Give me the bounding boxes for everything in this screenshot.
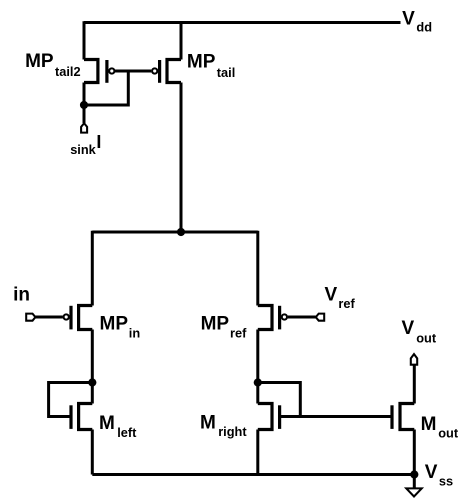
transistor MPin gate bar: [69, 306, 72, 330]
label Vref: [325, 284, 356, 311]
wire Mright diode tie from node C to gate net: [258, 383, 301, 417]
wire Mleft diode tie from node B to gate: [49, 383, 93, 417]
wire node A to Isink port: [83, 105, 86, 123]
wire Mout drain up to Vout port: [413, 365, 416, 404]
label MPtail2: [25, 51, 81, 79]
svg-text:left: left: [117, 425, 137, 440]
transistor MPtail gate bar: [158, 60, 161, 83]
transistor MPtail2 gate bubble: [109, 68, 114, 73]
svg-text:ss: ss: [439, 474, 453, 489]
label MPin: [100, 314, 141, 341]
svg-text:right: right: [218, 424, 247, 439]
wire tail node rail: [92, 231, 257, 234]
port Vout terminal: [411, 354, 417, 365]
label Mleft: [99, 413, 137, 440]
transistor MPin gate bubble: [64, 314, 69, 319]
svg-text:MP: MP: [201, 314, 230, 335]
svg-text:tail2: tail2: [55, 64, 81, 79]
svg-text:in: in: [13, 285, 30, 306]
node C junction dot: [254, 378, 262, 386]
transistor Mleft channel: [79, 404, 93, 430]
svg-text:in: in: [129, 325, 141, 340]
svg-text:I: I: [96, 132, 101, 152]
svg-text:ref: ref: [338, 296, 355, 311]
svg-text:ref: ref: [230, 325, 247, 340]
wire MPtail2 source to rail: [83, 21, 86, 59]
label Vss: [425, 462, 453, 489]
transistor MPref gate bar: [278, 306, 281, 330]
label Vdd: [402, 8, 432, 34]
transistor Mleft gate bar: [69, 405, 72, 429]
svg-text:out: out: [438, 426, 459, 441]
svg-text:MP: MP: [100, 314, 129, 335]
transistor MPtail2 gate bar: [105, 60, 108, 83]
svg-text:MP: MP: [187, 52, 216, 73]
wire node B down to Mleft drain: [91, 383, 94, 404]
node Vss junction dot: [410, 470, 418, 478]
svg-text:tail: tail: [217, 65, 236, 80]
label in: [13, 285, 30, 306]
transistor Mright gate bar: [278, 405, 281, 429]
wire Mright source to Vss rail: [256, 430, 259, 475]
node B junction dot: [88, 378, 96, 386]
transistor Mright channel: [258, 404, 272, 430]
label MPref: [201, 314, 247, 341]
wire Mleft source to Vss rail: [91, 430, 94, 475]
wire node C down to Mright drain: [256, 383, 259, 404]
transistor MPin channel: [79, 306, 93, 330]
wire Mout source to Vss rail: [413, 430, 416, 475]
wire MPref gate to Vref port: [288, 316, 316, 319]
wire Vss bottom rail: [92, 473, 414, 476]
wire MPtail source to rail: [180, 21, 183, 59]
port Vref terminal: [316, 314, 324, 321]
wire MPtail drain down to tail node: [180, 83, 183, 233]
port Isink terminal: [81, 123, 87, 132]
svg-text:M: M: [99, 413, 115, 434]
label MPtail: [187, 52, 235, 80]
svg-text:out: out: [416, 330, 437, 345]
node tail junction dot: [177, 228, 185, 236]
svg-text:V: V: [325, 284, 338, 305]
transistor MPref gate bubble: [282, 314, 287, 319]
svg-text:MP: MP: [25, 51, 54, 72]
wire MPref drain to node C: [256, 330, 259, 383]
svg-text:V: V: [402, 8, 415, 29]
svg-text:dd: dd: [416, 20, 432, 35]
transistor MPref channel: [258, 306, 272, 330]
svg-text:V: V: [425, 462, 438, 483]
transistor MPtail gate bubble: [152, 68, 157, 73]
transistor MPtail2 channel: [84, 60, 98, 83]
svg-text:V: V: [402, 318, 415, 339]
label Isink: [70, 132, 101, 157]
ground symbol: [406, 475, 421, 497]
label Mout: [421, 414, 459, 441]
port in terminal: [26, 314, 35, 321]
wire gate net MPtail2 to MPtail: [115, 70, 152, 73]
svg-text:M: M: [421, 414, 437, 435]
transistor MPtail channel: [167, 60, 181, 83]
wire MPtail2 drain to node A: [83, 83, 86, 106]
label Mright: [200, 412, 247, 439]
wire Vdd top rail: [84, 21, 401, 24]
wire gate tie from node A up to gate net: [84, 71, 128, 105]
svg-text:M: M: [200, 412, 216, 433]
svg-text:sink: sink: [70, 142, 96, 157]
transistor Mout gate bar: [390, 405, 393, 429]
wire in port to MPin gate: [35, 316, 63, 319]
node A junction dot: [80, 101, 88, 109]
label Vout: [402, 318, 437, 345]
wire gate net Mright to Mout: [280, 415, 392, 418]
wire left branch from tail node to MPin source: [91, 231, 94, 306]
transistor Mout channel: [400, 404, 414, 430]
wire right branch from tail node to MPref source: [256, 231, 259, 306]
wire MPin drain to node B: [91, 330, 94, 383]
